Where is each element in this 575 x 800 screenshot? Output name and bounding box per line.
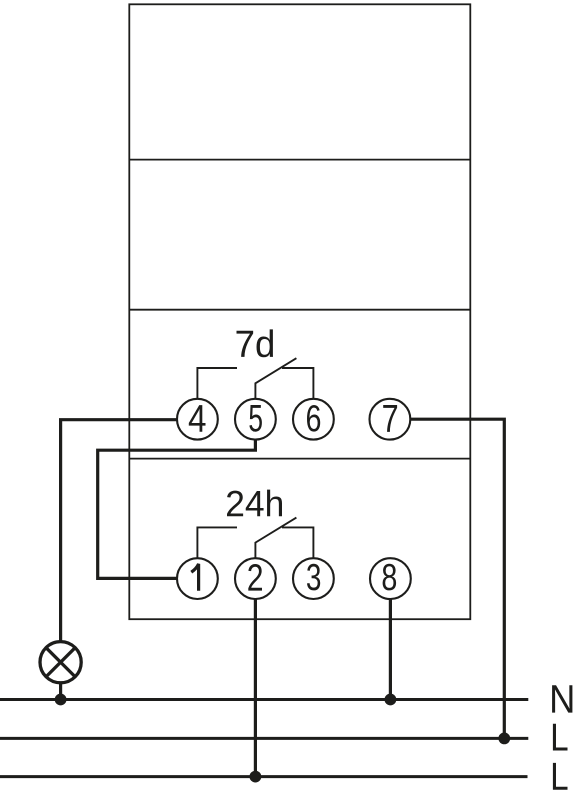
net L1 (line) (0, 737, 528, 740)
device outline U1 (multi-channel time switch) (129, 4, 470, 619)
wire: terminal 8 to line N (389, 598, 392, 700)
panel divider 1 (129, 159, 470, 161)
terminal 3 (293, 558, 334, 599)
switch S1 (7d channel contact) (197, 358, 313, 399)
junction: lamp on N (55, 694, 67, 706)
net N (neutral line) (0, 698, 528, 701)
wire: lamp to line N (59, 683, 62, 700)
net L2 (line) (0, 775, 528, 778)
terminal 4 (177, 399, 218, 440)
value label 24h (227, 490, 282, 517)
panel divider 2 (129, 309, 470, 311)
terminal 5 (235, 399, 276, 440)
net label L (L1) (553, 724, 568, 751)
net label N (552, 685, 572, 712)
value label 7d (237, 329, 274, 357)
terminal 8 (370, 558, 411, 599)
junction: terminal 2 wire on L2 (250, 771, 262, 783)
terminal 1 (177, 558, 218, 599)
wire: terminal 7 to line L1 (410, 419, 504, 738)
wire: terminal 4 to lamp (61, 420, 178, 642)
junction: terminal 7 wire on L1 (498, 733, 510, 745)
terminal 6 (293, 399, 334, 440)
switch S2 (24h channel contact) (197, 518, 313, 559)
panel divider 3 (129, 458, 470, 460)
wire: terminal 2 to line L2 (254, 598, 257, 777)
wire: terminal 5 to terminal 1 (98, 439, 256, 579)
net label L (L2) (553, 763, 568, 790)
terminal 2 (235, 558, 276, 599)
terminal 7 (370, 399, 411, 440)
lamp E1 (40, 642, 81, 683)
junction: terminal 8 on N (385, 694, 397, 706)
